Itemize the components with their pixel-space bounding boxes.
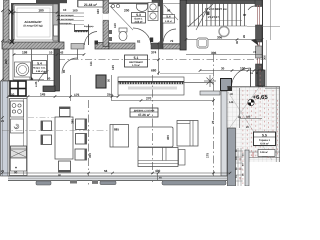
- svg-text:1.10 м²: 1.10 м²: [165, 20, 172, 23]
- svg-text:АСАНСЬОР: АСАНСЬОР: [24, 20, 41, 24]
- bottom-right dim column: [238, 148, 241, 186]
- svg-text:198: 198: [22, 51, 28, 55]
- terrace strip tiles bottom-right: [249, 151, 280, 158]
- shower diagonal: [110, 6, 133, 30]
- landing lines right: [270, 0, 272, 40]
- chair bottom: [59, 161, 71, 172]
- entry door leaf: [88, 25, 90, 45]
- dim line 306: [186, 36, 262, 55]
- svg-text:10: 10: [63, 8, 67, 12]
- top wall band over elevator: [36, 0, 67, 3]
- svg-text:Коридор: Коридор: [84, 25, 94, 28]
- svg-text:374: 374: [151, 51, 157, 55]
- radiator 3 long: [162, 181, 226, 185]
- level marker circle: [248, 99, 254, 105]
- svg-text:30: 30: [221, 67, 225, 71]
- axis vertical x152: [152, 75, 154, 182]
- svg-text:380: 380: [71, 119, 75, 124]
- hall label box 21.44: [78, 1, 103, 8]
- wall corner block top-right: [255, 0, 262, 7]
- svg-text:21.44 м²: 21.44 м²: [84, 3, 98, 7]
- entry door arc: [84, 32, 97, 46]
- column circle: [219, 27, 229, 37]
- dining table: [55, 117, 73, 159]
- svg-text:56: 56: [104, 169, 108, 173]
- closet diagonal: [164, 5, 178, 20]
- dim 180: [14, 12, 57, 14]
- terrace door arc: [232, 68, 251, 87]
- horizontal centerline axis: [58, 59, 263, 61]
- svg-text:10: 10: [49, 51, 53, 55]
- svg-text:90: 90: [62, 69, 66, 73]
- elevator door: [54, 25, 59, 36]
- island 885: [110, 125, 129, 148]
- svg-text:Мокро пом.: Мокро пом.: [33, 66, 46, 69]
- svg-text:270: 270: [146, 97, 152, 101]
- freestanding column: [96, 75, 106, 88]
- stair marker square: [206, 12, 210, 16]
- bench seat: [197, 38, 208, 48]
- stair wall thick: [180, 0, 186, 50]
- svg-text:145: 145: [40, 93, 46, 97]
- radiator 2: [100, 181, 116, 185]
- wall joint X marks: [9, 10, 15, 45]
- dim row y80.5: [13, 80, 55, 82]
- svg-text:145: 145: [229, 101, 234, 104]
- closet bottom wall: [163, 44, 180, 49]
- sink kitchen: [11, 119, 24, 133]
- svg-text:72: 72: [170, 39, 174, 43]
- bath door arc: [133, 28, 151, 45]
- svg-text:97: 97: [243, 13, 247, 17]
- dim row 30 100: [200, 70, 262, 72]
- left exterior wall lower: [1, 81, 9, 176]
- top wall band stairwell: [186, 0, 262, 4]
- bathroom top wall: [109, 3, 152, 4]
- chair left 1: [41, 121, 52, 131]
- chair left 2: [41, 135, 52, 145]
- big wall under elevator: [2, 42, 64, 49]
- svg-text:Тераса 1: Тераса 1: [259, 139, 271, 142]
- left exterior wall upper: [4, 0, 10, 81]
- dim column tick lines: [236, 151, 243, 181]
- svg-text:3.66 м²: 3.66 м²: [135, 20, 143, 23]
- svg-text:90: 90: [14, 171, 18, 175]
- terrace top edge: [227, 86, 280, 88]
- svg-text:135: 135: [111, 65, 115, 70]
- closet dividing wall: [160, 0, 163, 49]
- laundry door arc: [38, 71, 49, 83]
- svg-text:5.4: 5.4: [166, 15, 171, 19]
- terrace dim line y118: [240, 118, 262, 120]
- dim line bottom: [2, 172, 230, 174]
- svg-text:74: 74: [253, 50, 257, 54]
- svg-text:5.1: 5.1: [134, 56, 139, 60]
- svg-text:111: 111: [89, 61, 93, 66]
- window sill strip left of door: [200, 91, 220, 95]
- svg-text:0.96 м²: 0.96 м²: [260, 151, 268, 154]
- svg-text:27,27,27,: 27,27,27,: [208, 15, 220, 19]
- ventilation labels: [56, 17, 84, 25]
- wall block right of bath door: [151, 43, 163, 49]
- closet room: [163, 4, 180, 44]
- arrow marker mid right: [251, 39, 259, 46]
- terrace right rail: [276, 87, 278, 162]
- small label box bottom right: [258, 150, 275, 157]
- bath label box 5.3: [132, 13, 146, 24]
- laundry right wall line: [47, 55, 49, 80]
- dimension ticks: [1, 9, 264, 174]
- stair bottom edge: [186, 25, 247, 27]
- svg-text:ош вентилация: ош вентилация: [57, 14, 74, 17]
- svg-text:306: 306: [263, 55, 267, 60]
- hall floor strip: [71, 44, 84, 50]
- stair treads: [190, 4, 245, 26]
- svg-text:110: 110: [113, 23, 117, 28]
- stove: [11, 101, 24, 117]
- chair right 2: [76, 134, 87, 145]
- curved arrow stairs: [248, 6, 260, 10]
- svg-text:+6,65: +6,65: [253, 94, 269, 101]
- vert dim x70: [70, 75, 72, 101]
- centerline y117: [28, 117, 56, 119]
- wall segment right of entry door: [95, 43, 109, 50]
- dim column texts: [235, 149, 245, 178]
- entry jamb line: [74, 24, 76, 32]
- elevator shaft walls: [11, 3, 60, 42]
- vestibule label box 5.1: [125, 55, 148, 67]
- svg-text:1.76 м²: 1.76 м²: [132, 64, 140, 67]
- sofa side table: [179, 150, 186, 166]
- svg-text:помещение: помещение: [59, 22, 72, 25]
- radiator 1: [36, 181, 51, 185]
- svg-text:43: 43: [60, 51, 64, 55]
- closet door arc: [164, 29, 177, 42]
- living room label box 47.26: [130, 108, 158, 117]
- sofa: [138, 148, 178, 167]
- vert dim x111: [111, 75, 113, 101]
- svg-text:75: 75: [211, 120, 215, 124]
- svg-text:160: 160: [73, 9, 78, 13]
- svg-text:180: 180: [38, 8, 44, 12]
- svg-text:47.26 м²: 47.26 м²: [138, 113, 150, 117]
- svg-text:96: 96: [167, 9, 171, 13]
- wall blocks on right shaft: [256, 25, 263, 42]
- terrace label box 5.5: [254, 132, 276, 146]
- washer dryer stack: [148, 3, 158, 12]
- svg-text:х.25: х.25: [34, 81, 38, 87]
- svg-text:38: 38: [43, 70, 47, 74]
- svg-text:680: 680: [151, 69, 157, 73]
- svg-text:400: 400: [166, 135, 170, 140]
- bottom right band: [249, 152, 280, 158]
- svg-text:(8 лица 630 kg): (8 лица 630 kg): [24, 25, 43, 28]
- terrace floor tiles: [227, 87, 280, 162]
- terrace line y73: [160, 73, 214, 75]
- chair right 3: [75, 149, 87, 160]
- svg-text:100: 100: [240, 67, 246, 71]
- shower circles bath top: [111, 4, 114, 7]
- closet label box 5.4: [163, 15, 175, 24]
- bottom window band: [8, 176, 227, 181]
- svg-text:ДНЕВНА С КУХНЯ: ДНЕВНА С КУХНЯ: [134, 109, 155, 112]
- kitchen dark cabinet block: [10, 81, 26, 96]
- terrace projection diagonal 2: [228, 86, 260, 130]
- entry lintel dashes: [75, 30, 89, 32]
- svg-text:26: 26: [242, 34, 246, 38]
- tv cabinet with zipper band: [118, 77, 184, 95]
- terrace projection diagonal 1: [228, 92, 272, 160]
- svg-text:5.5: 5.5: [262, 133, 267, 137]
- bath accessories on wall: [109, 30, 112, 34]
- window tick marks bottom: [70, 181, 77, 184]
- gray strip bottom right: [245, 150, 249, 186]
- chair right 1: [76, 119, 87, 130]
- door hinge block: [95, 41, 99, 45]
- bath door hinge: [150, 38, 153, 43]
- svg-text:50: 50: [11, 93, 15, 97]
- section line red: [258, 5, 260, 64]
- svg-text:ош вентилация: ош вентилация: [57, 18, 74, 21]
- svg-text:885: 885: [114, 128, 119, 132]
- svg-text:5.4: 5.4: [37, 62, 42, 66]
- axis vertical x88: [88, 100, 90, 186]
- svg-text:160: 160: [96, 9, 100, 14]
- axis vertical x213: [213, 54, 215, 182]
- terrace window strip: [221, 91, 227, 176]
- chair top: [60, 107, 71, 117]
- fridge: [11, 146, 27, 158]
- cross-hatched wall vertical: [54, 49, 60, 91]
- hall/bath dividing wall: [103, 0, 109, 47]
- centerline y130: [2, 130, 110, 132]
- washing machine: [15, 62, 31, 77]
- cross-hatched wall horizontal leg: [43, 86, 55, 92]
- svg-text:6.04 м²: 6.04 м²: [260, 142, 269, 145]
- svg-text:260: 260: [4, 59, 8, 64]
- svg-text:72: 72: [30, 77, 34, 81]
- svg-text:17 х 17.66/27 см: 17 х 17.66/27 см: [205, 7, 227, 11]
- coffee table: [138, 127, 173, 147]
- bathroom corner wall block: [152, 0, 160, 6]
- cabinet below: [11, 158, 27, 171]
- bath sink: [137, 4, 148, 12]
- terrace pilaster: [228, 128, 236, 186]
- bathroom bottom wall: [109, 43, 135, 49]
- svg-text:82: 82: [137, 40, 141, 44]
- laundry room walls: [31, 49, 33, 80]
- terrace dim line vertical: [239, 88, 241, 128]
- svg-text:50: 50: [107, 78, 111, 82]
- wall line continuation: [184, 82, 214, 84]
- dim line 175 kitchen: [8, 96, 118, 98]
- svg-text:5.3: 5.3: [136, 13, 141, 17]
- red dashes bottom right: [239, 158, 241, 184]
- bath door gap: [103, 13, 109, 21]
- svg-text:175: 175: [206, 153, 210, 158]
- dim chain under big wall: [13, 54, 84, 56]
- dim line 270: [112, 100, 214, 102]
- svg-text:430: 430: [155, 169, 161, 173]
- svg-text:185: 185: [246, 116, 251, 119]
- armchair: [177, 121, 198, 147]
- svg-text:175: 175: [74, 93, 80, 97]
- hall door arc to living: [62, 58, 78, 74]
- svg-text:35: 35: [235, 40, 239, 44]
- stair direction line: [188, 4, 213, 27]
- terrace column square: [221, 79, 232, 91]
- toilet: [119, 28, 127, 41]
- compass marker: [204, 75, 216, 87]
- kitchen counter: [10, 99, 28, 176]
- stairwell right edge line: [262, 0, 264, 87]
- svg-text:25: 25: [1, 119, 5, 123]
- elevator car interior: [15, 6, 53, 41]
- vertical dim right x269: [266, 40, 268, 87]
- laundry label box 5.4: [33, 61, 47, 74]
- red dashed lines terrace: [243, 66, 277, 186]
- dim 374 680: [158, 43, 160, 75]
- svg-text:200: 200: [124, 9, 130, 13]
